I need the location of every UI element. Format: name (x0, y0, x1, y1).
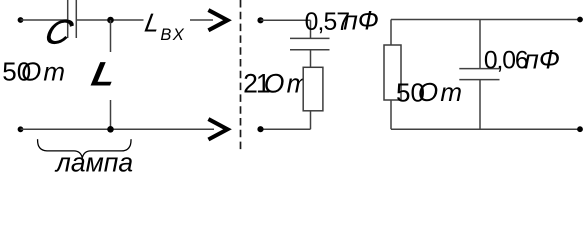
arrow bottom (input) (208, 119, 227, 139)
svg-text:Om: Om (418, 77, 464, 107)
wire middle bottom (261, 128, 311, 130)
resistor 21 Ом (body) (303, 67, 323, 111)
resistor 50 Ом (body) (384, 45, 401, 100)
svg-text:пФ: пФ (524, 45, 560, 75)
wire down to capacitor 0,06пФ (479, 20, 481, 69)
label L (inductor) (88, 55, 119, 93)
wire capacitor to bottom rail (479, 80, 481, 130)
label 0,57пФ (305, 6, 379, 37)
node middle-bottom terminal (257, 126, 263, 132)
wire resistor to bottom rail (390, 100, 392, 129)
wire from capacitor C to node A (76, 19, 143, 21)
wire capacitor to resistor 21 Ом (310, 50, 312, 68)
arrow top (input) (208, 10, 227, 30)
node right-bottom terminal (577, 126, 583, 132)
label 50 Ом (left) (2, 57, 67, 87)
wire top rail from terminal to capacitor C (21, 19, 68, 21)
label 21 Ом (243, 68, 311, 98)
node left-bottom terminal (18, 126, 24, 132)
svg-text:0,06: 0,06 (484, 48, 528, 75)
wire resistor to bottom rail (310, 111, 312, 129)
inductor L (wire with break) (110, 20, 112, 129)
wire top rail to arrow (190, 19, 213, 21)
label 0,06пФ (484, 45, 560, 75)
boundary dashed line (240, 0, 242, 152)
wire top rail right section (391, 19, 580, 21)
wire bottom rail left (21, 128, 215, 130)
node A (top junction) (107, 17, 114, 24)
wire down to resistor 50 Ом (390, 20, 392, 46)
wire bottom rail right section (391, 128, 580, 130)
node B (bottom junction) (107, 126, 114, 133)
label L_вх (143, 7, 185, 44)
brace under лампа (38, 139, 131, 157)
capacitor 0,06пФ (horizontal plates) (459, 69, 499, 80)
svg-text:Om: Om (21, 57, 67, 87)
label 50 Ом (right) (396, 77, 464, 107)
capacitor 0,57пФ (horizontal plates) (290, 38, 330, 49)
wire middle top (261, 19, 311, 21)
svg-text:пФ: пФ (343, 6, 379, 36)
node middle-top terminal (257, 17, 263, 23)
node left-top terminal (18, 17, 24, 23)
svg-text:лампа: лампа (54, 148, 133, 178)
label C (40, 13, 78, 51)
wire down to capacitor 0,57пФ (310, 20, 312, 38)
capacitor C (series, vertical plates) (68, 0, 77, 38)
svg-text:BX: BX (160, 26, 185, 44)
node right-top terminal (577, 17, 583, 23)
